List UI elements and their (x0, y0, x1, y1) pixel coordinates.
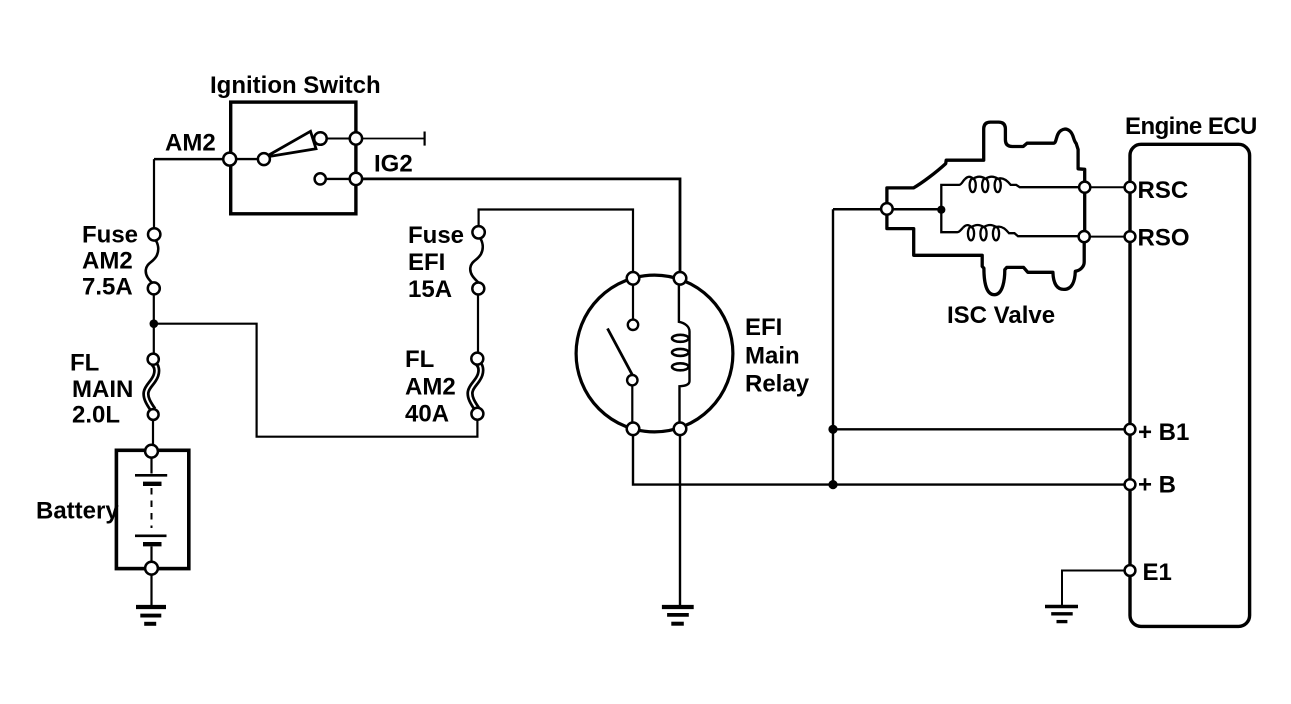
svg-text:Main: Main (745, 343, 800, 370)
svg-text:RSC: RSC (1138, 177, 1189, 204)
svg-text:AM2: AM2 (405, 374, 456, 401)
svg-text:7.5A: 7.5A (82, 274, 133, 301)
svg-text:Battery: Battery (36, 498, 119, 525)
svg-text:E1: E1 (1143, 559, 1172, 586)
svg-text:RSO: RSO (1138, 225, 1190, 252)
svg-text:FL: FL (70, 350, 99, 377)
svg-text:Relay: Relay (745, 371, 810, 398)
svg-text:FL: FL (405, 346, 434, 373)
svg-text:+ B: + B (1138, 471, 1176, 498)
svg-text:MAIN: MAIN (72, 376, 133, 403)
svg-text:AM2: AM2 (165, 130, 216, 157)
svg-text:Fuse: Fuse (82, 222, 138, 249)
svg-text:IG2: IG2 (374, 151, 413, 178)
svg-text:15A: 15A (408, 276, 452, 303)
svg-text:EFI: EFI (408, 249, 445, 276)
svg-text:Engine ECU: Engine ECU (1125, 113, 1257, 140)
svg-text:+ B1: + B1 (1138, 419, 1189, 446)
svg-text:AM2: AM2 (82, 247, 133, 274)
svg-text:EFI: EFI (745, 314, 782, 341)
svg-text:Ignition Switch: Ignition Switch (210, 72, 381, 99)
svg-text:40A: 40A (405, 401, 449, 428)
svg-text:2.0L: 2.0L (72, 402, 120, 429)
svg-text:Fuse: Fuse (408, 222, 464, 249)
svg-text:ISC Valve: ISC Valve (947, 302, 1055, 329)
